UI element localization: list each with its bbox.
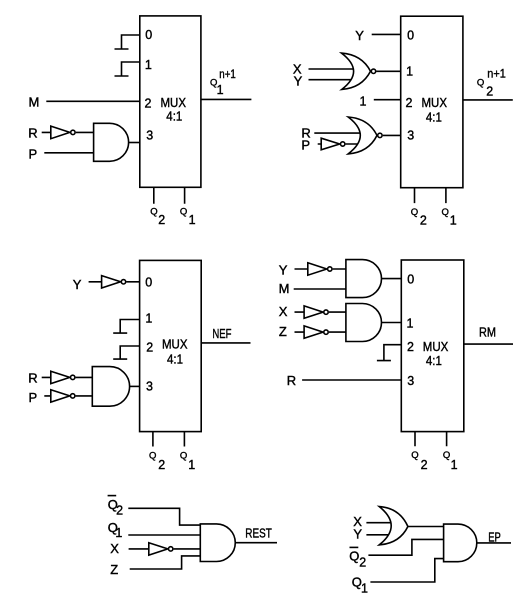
svg-text:2: 2 (420, 214, 427, 228)
svg-text:4:1: 4:1 (426, 353, 442, 368)
svg-text:EP: EP (488, 529, 501, 544)
svg-text:1: 1 (406, 65, 413, 79)
svg-text:Y: Y (353, 526, 362, 541)
svg-text:Q: Q (180, 207, 187, 218)
svg-text:0: 0 (145, 275, 152, 289)
svg-text:3: 3 (146, 380, 153, 394)
svg-text:2: 2 (145, 96, 152, 110)
svg-text:Q: Q (477, 78, 484, 89)
svg-text:1: 1 (145, 311, 152, 325)
svg-text:Q: Q (442, 207, 449, 218)
svg-text:P: P (29, 390, 38, 405)
svg-text:Q: Q (180, 450, 187, 461)
svg-text:n+1: n+1 (487, 69, 506, 81)
svg-text:Y: Y (279, 262, 288, 277)
svg-text:0: 0 (407, 272, 414, 286)
svg-text:3: 3 (146, 129, 153, 143)
svg-text:MUX: MUX (422, 95, 448, 110)
svg-text:Q: Q (411, 450, 418, 461)
svg-text:2: 2 (116, 503, 123, 517)
svg-text:1: 1 (217, 83, 224, 97)
svg-text:1: 1 (360, 94, 367, 108)
svg-text:1: 1 (115, 526, 122, 540)
svg-text:M: M (29, 94, 40, 109)
svg-text:2: 2 (158, 458, 165, 472)
svg-text:2: 2 (406, 96, 413, 110)
svg-text:4:1: 4:1 (426, 110, 442, 125)
svg-text:2: 2 (158, 213, 165, 227)
svg-text:1: 1 (189, 213, 196, 227)
svg-text:R: R (287, 373, 296, 388)
svg-text:Q: Q (150, 207, 157, 218)
svg-text:P: P (301, 137, 310, 152)
svg-text:Z: Z (279, 324, 287, 339)
svg-text:3: 3 (407, 129, 414, 143)
svg-text:2: 2 (359, 555, 366, 569)
svg-text:REST: REST (245, 526, 272, 541)
svg-text:MUX: MUX (423, 339, 449, 354)
svg-text:0: 0 (145, 28, 152, 42)
svg-text:Q: Q (349, 548, 359, 563)
svg-text:1: 1 (450, 214, 457, 228)
svg-text:1: 1 (188, 458, 195, 472)
svg-text:Z: Z (110, 562, 118, 577)
svg-text:2: 2 (421, 458, 428, 472)
svg-text:n+1: n+1 (219, 69, 236, 81)
svg-text:4:1: 4:1 (167, 352, 183, 367)
svg-text:2: 2 (486, 84, 493, 98)
svg-text:M: M (279, 281, 290, 296)
svg-text:X: X (110, 541, 119, 556)
svg-text:RM: RM (479, 325, 496, 340)
svg-text:R: R (28, 371, 37, 386)
svg-text:Y: Y (73, 277, 82, 292)
svg-text:3: 3 (407, 374, 414, 388)
svg-text:Q: Q (411, 207, 418, 218)
svg-text:R: R (28, 126, 37, 141)
svg-text:MUX: MUX (162, 337, 188, 352)
svg-text:2: 2 (146, 340, 153, 354)
svg-text:Q: Q (149, 450, 156, 461)
svg-text:X: X (279, 304, 288, 319)
svg-text:0: 0 (407, 29, 414, 43)
svg-text:Y: Y (355, 28, 364, 43)
svg-text:1: 1 (451, 458, 458, 472)
svg-text:1: 1 (407, 316, 414, 330)
svg-text:Y: Y (294, 74, 303, 89)
svg-text:P: P (29, 146, 38, 161)
svg-text:Q: Q (443, 450, 450, 461)
svg-text:NEF: NEF (212, 326, 231, 341)
svg-text:1: 1 (361, 582, 368, 596)
svg-text:2: 2 (407, 340, 414, 354)
svg-text:4:1: 4:1 (166, 108, 182, 123)
svg-text:1: 1 (145, 58, 152, 72)
